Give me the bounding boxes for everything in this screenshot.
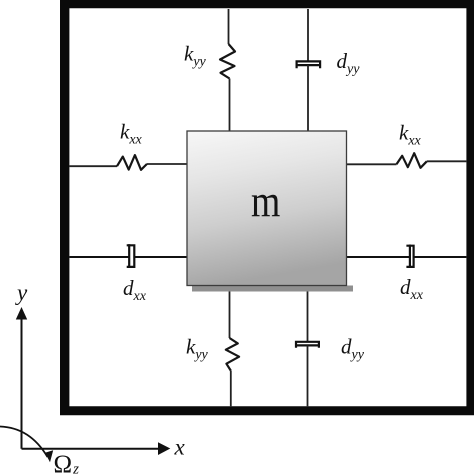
label y — [15, 280, 28, 305]
svg-text:kxx: kxx — [399, 121, 422, 149]
wire lower-left horizontal (frame to damper) — [70, 256, 130, 258]
spring k_yy bottom — [226, 338, 239, 371]
label d_yy bottom — [341, 335, 365, 363]
svg-text:y: y — [15, 280, 28, 305]
svg-text:m: m — [251, 177, 281, 227]
label k_yy bottom — [186, 335, 209, 363]
wire top-left vertical (frame to spring) — [228, 9, 230, 44]
label k_xx left — [120, 119, 143, 147]
svg-text:kyy: kyy — [186, 335, 209, 363]
damper d_yy top — [296, 61, 320, 68]
wire lower-right horizontal (mass to damper) — [347, 256, 410, 258]
label k_yy top — [184, 42, 207, 70]
wire bottom-left vertical (mass to spring) — [229, 286, 231, 339]
wire top-right vertical (damper to mass) — [307, 65, 309, 131]
label k_xx right — [399, 121, 422, 149]
wire bottom-right vertical (damper to frame) — [307, 345, 309, 406]
svg-text:Ωz: Ωz — [54, 451, 80, 474]
label m (mass) — [251, 177, 281, 227]
mass block m — [187, 131, 347, 286]
wire upper-right horizontal (spring to frame) — [427, 160, 467, 162]
spring k_xx left — [117, 155, 147, 170]
wire lower-right horizontal (damper to frame) — [414, 256, 467, 258]
damper d_xx left — [127, 244, 135, 268]
svg-text:dxx: dxx — [123, 276, 147, 304]
wire bottom-left vertical (spring to frame) — [230, 371, 232, 407]
svg-text:dyy: dyy — [337, 49, 361, 77]
wire lower-left horizontal (damper to mass) — [134, 256, 187, 258]
wire bottom-right vertical (mass to damper) — [307, 286, 309, 343]
spring k_xx right — [397, 153, 427, 168]
svg-text:dyy: dyy — [341, 335, 365, 363]
label x — [174, 435, 186, 460]
svg-text:dxx: dxx — [400, 275, 424, 303]
wire top-right vertical (frame to damper) — [307, 9, 309, 62]
label d_yy top — [337, 49, 361, 77]
rotation arrow Omega_z — [0, 427, 53, 463]
x-axis — [22, 442, 171, 455]
spring k_yy top — [220, 44, 235, 79]
label Omega_z — [54, 451, 80, 474]
damper d_yy bottom — [296, 342, 319, 348]
outer rigid frame — [60, 0, 474, 415]
label d_xx left — [123, 276, 147, 304]
wire upper-left horizontal (frame to spring) — [70, 165, 118, 167]
y-axis — [16, 307, 27, 449]
svg-text:kyy: kyy — [184, 42, 207, 70]
wire upper-right horizontal (mass to spring) — [347, 163, 397, 165]
mass shadow — [192, 286, 353, 292]
wire upper-left horizontal (spring to mass) — [147, 163, 187, 165]
label d_xx right — [400, 275, 424, 303]
svg-text:kxx: kxx — [120, 119, 143, 147]
svg-text:x: x — [174, 435, 186, 460]
damper d_xx right — [406, 245, 413, 269]
wire top-left vertical (spring to mass) — [229, 79, 231, 132]
